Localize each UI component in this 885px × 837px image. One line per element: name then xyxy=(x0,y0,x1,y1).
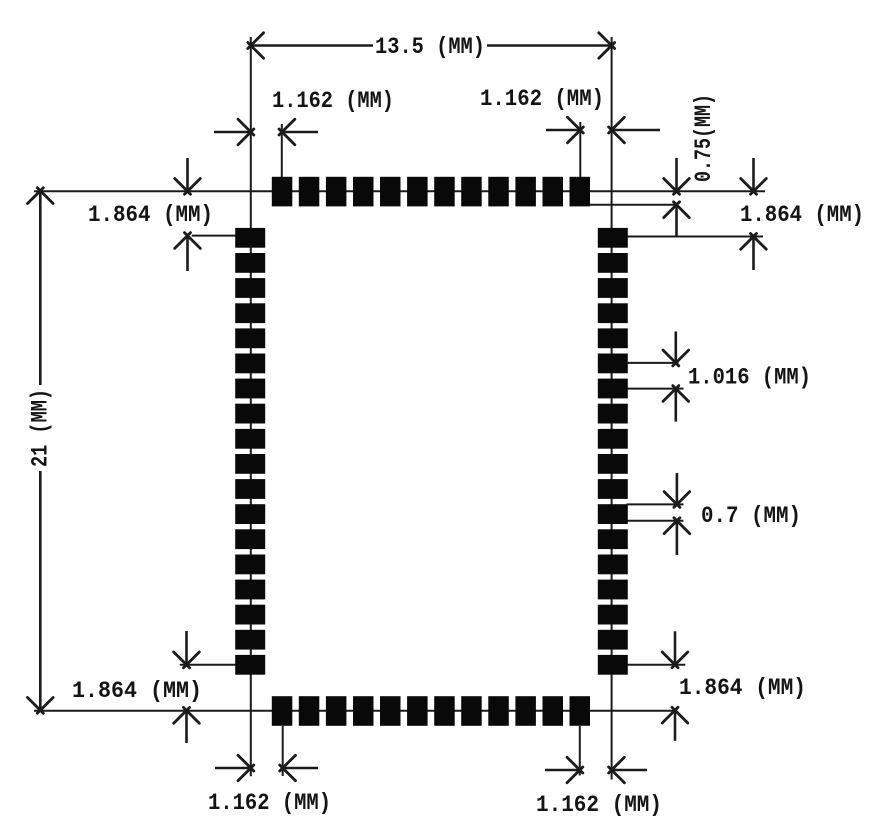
extension line, last top pad centre (x=580.3) xyxy=(579,122,581,182)
pad top row 5 xyxy=(380,177,401,207)
svg-text:1.162 (MM): 1.162 (MM) xyxy=(208,790,331,816)
dimension 1.162 (MM), bottom-right pad offset xyxy=(536,757,662,818)
pad right column 13 xyxy=(598,529,628,549)
pad right column 12 xyxy=(598,504,628,524)
pad top row 7 xyxy=(434,177,455,207)
pad left column 5 xyxy=(235,328,265,348)
pad right column 16 xyxy=(598,605,628,625)
pad bottom row 2 xyxy=(299,696,320,726)
extension line, right pad 12 bottom edge (y=520.8) xyxy=(627,520,684,522)
svg-text:21 (MM): 21 (MM) xyxy=(28,389,54,467)
svg-text:0.7 (MM): 0.7 (MM) xyxy=(701,503,801,529)
pad right column 17 xyxy=(598,630,628,650)
extension line, right pad 7 centre (y=388.6) xyxy=(627,388,684,390)
dimension 13.5 (MM), overall width xyxy=(248,33,615,60)
pad bottom row 8 xyxy=(461,696,482,726)
dimension 0.75(MM), top pad protrusion xyxy=(664,94,717,236)
pad left column 7 xyxy=(235,379,265,399)
dimension 1.864 (MM), bottom-right corner clearance xyxy=(662,631,806,741)
pad left column 10 xyxy=(235,454,265,474)
pad top row 6 xyxy=(407,177,428,207)
pad bottom row 3 xyxy=(326,696,347,726)
pad right column 4 xyxy=(598,303,628,323)
pad right column 18 xyxy=(598,655,628,675)
dimension 0.7 (MM), side pad width xyxy=(664,473,801,555)
pad top row 3 xyxy=(326,177,347,207)
extension line, right pad 6 centre (y=362.9) xyxy=(627,362,679,364)
pad top row 10 xyxy=(515,177,536,207)
pad left column 12 xyxy=(235,504,265,524)
dimension 1.162 (MM), top-left pad offset xyxy=(214,88,394,145)
pad top row 2 xyxy=(299,177,320,207)
svg-text:1.162 (MM): 1.162 (MM) xyxy=(272,88,394,114)
pad bottom row 1 xyxy=(272,696,293,726)
pad left column 1 xyxy=(235,228,265,248)
pad left column 18 xyxy=(235,655,265,675)
pad right column 2 xyxy=(598,253,628,273)
pad right column 14 xyxy=(598,555,628,575)
dimension 1.162 (MM), top-right pad offset xyxy=(480,86,660,143)
dimension 1.864 (MM), top-left corner clearance xyxy=(88,158,213,271)
pad bottom row 4 xyxy=(353,696,374,726)
pad left column 4 xyxy=(235,303,265,323)
extension line, module top edge + 21mm/0.75mm extents (y=191.3) xyxy=(34,190,765,192)
svg-text:0.75(MM): 0.75(MM) xyxy=(691,94,717,182)
pad top row 11 xyxy=(543,177,564,207)
pad top row 1 xyxy=(272,177,293,207)
pad left column 9 xyxy=(235,429,265,449)
pad bottom row 9 xyxy=(488,696,509,726)
svg-text:1.864 (MM): 1.864 (MM) xyxy=(740,202,864,228)
pad right column 3 xyxy=(598,278,628,298)
pad left column 15 xyxy=(235,580,265,600)
pad top row 8 xyxy=(461,177,482,207)
svg-text:1.016 (MM): 1.016 (MM) xyxy=(688,365,811,391)
extension line, last right pad centre (y=664.8) xyxy=(628,664,686,666)
pad right column 15 xyxy=(598,580,628,600)
extension line, first top pad centre (x=281.8) xyxy=(281,124,283,182)
pad bottom row 11 xyxy=(543,696,564,726)
pad top row 9 xyxy=(488,177,509,207)
extension line, right pad 12 top edge (y=504.4) xyxy=(627,503,684,505)
dimension 1.864 (MM), bottom-left corner clearance xyxy=(72,631,202,743)
dimension 1.162 (MM), bottom-left pad offset xyxy=(208,755,331,816)
pad left column 3 xyxy=(235,278,265,298)
dimension 21 (MM), overall height xyxy=(28,188,54,714)
pad left column 17 xyxy=(235,630,265,650)
pad right column 1 xyxy=(598,228,628,248)
svg-text:1.162 (MM): 1.162 (MM) xyxy=(480,86,604,112)
extension line, first left pad centre (y=235.6) xyxy=(192,235,238,237)
pad right column 6 xyxy=(598,354,628,374)
pad bottom row 7 xyxy=(434,696,455,726)
extension line, module bottom edge + extents (y=710.7) xyxy=(34,710,677,712)
pad top row 4 xyxy=(353,177,374,207)
dimension 1.016 (MM), side pad pitch xyxy=(663,332,811,422)
pad left column 6 xyxy=(235,354,265,374)
dimension 1.864 (MM), top-right corner clearance xyxy=(740,158,864,270)
extension line, first bottom pad centre (x=282.7) xyxy=(282,726,284,776)
extension line, last left pad centre (y=664.8) xyxy=(180,664,237,666)
pad bottom row 5 xyxy=(380,696,401,726)
pad right column 7 xyxy=(598,379,628,399)
pad left column 2 xyxy=(235,253,265,273)
svg-text:13.5 (MM): 13.5 (MM) xyxy=(375,34,485,60)
pad bottom row 6 xyxy=(407,696,428,726)
extension line, module left edge (x=250.8) xyxy=(250,37,252,776)
pad bottom row 10 xyxy=(515,696,536,726)
pad right column 10 xyxy=(598,454,628,474)
extension line, top pads bottom edge (y=204.8) xyxy=(578,204,678,206)
extension line, first right pad centre (y=236.5) xyxy=(627,236,764,238)
svg-text:1.162 (MM): 1.162 (MM) xyxy=(536,792,662,818)
extension line, last bottom pad centre (x=579.8) xyxy=(579,726,581,776)
pad right column 8 xyxy=(598,404,628,424)
svg-text:1.864 (MM): 1.864 (MM) xyxy=(679,675,806,701)
pad bottom row 12 xyxy=(570,696,591,726)
pad left column 8 xyxy=(235,404,265,424)
svg-text:1.864 (MM): 1.864 (MM) xyxy=(88,202,213,228)
pad left column 11 xyxy=(235,479,265,499)
pad right column 9 xyxy=(598,429,628,449)
pad left column 16 xyxy=(235,605,265,625)
pad right column 5 xyxy=(598,328,628,348)
pad left column 13 xyxy=(235,529,265,549)
pad right column 11 xyxy=(598,479,628,499)
pad top row 12 xyxy=(570,177,591,207)
svg-text:1.864 (MM): 1.864 (MM) xyxy=(72,678,202,704)
pad left column 14 xyxy=(235,555,265,575)
extension line, module right edge (x=611.6) xyxy=(611,37,613,780)
